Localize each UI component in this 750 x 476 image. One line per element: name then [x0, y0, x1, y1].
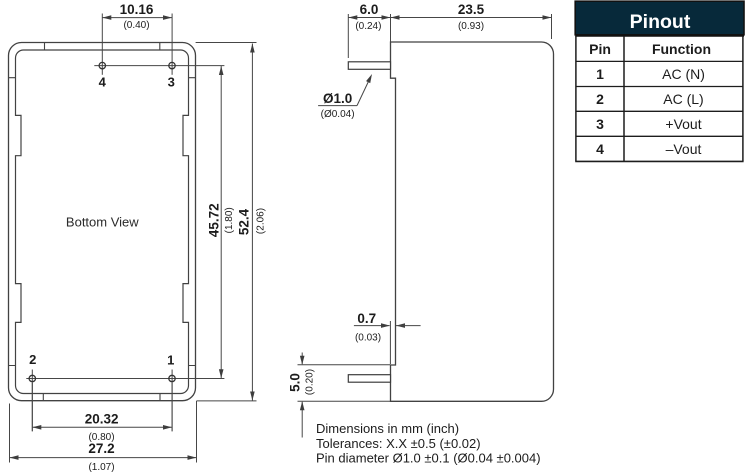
pin centerline (top pins row) — [94, 65, 224, 67]
svg-text:1: 1 — [596, 66, 604, 82]
svg-text:23.5: 23.5 — [458, 2, 485, 17]
svg-text:6.0: 6.0 — [360, 2, 379, 17]
dimension 23.5 (0.93) — [391, 2, 552, 39]
dimension 5.0 (0.20) — [287, 353, 390, 438]
svg-text:Function: Function — [652, 41, 711, 57]
svg-text:52.4: 52.4 — [237, 208, 252, 235]
svg-text:(0.20): (0.20) — [305, 369, 316, 395]
svg-text:(Ø0.04): (Ø0.04) — [321, 109, 355, 120]
svg-text:(0.03): (0.03) — [355, 333, 381, 344]
top pin (side view) — [348, 62, 390, 70]
pin 4 — [99, 62, 105, 68]
svg-text:Pin diameter Ø1.0 ±0.1 (Ø0.04: Pin diameter Ø1.0 ±0.1 (Ø0.04 ±0.004) — [316, 451, 541, 466]
svg-text:Pinout: Pinout — [630, 11, 691, 33]
svg-text:(0.40): (0.40) — [123, 20, 149, 31]
svg-text:(0.93): (0.93) — [458, 21, 484, 32]
edge tick marks — [9, 43, 196, 401]
extension line bottom right of bottom view — [197, 400, 257, 402]
svg-text:4: 4 — [596, 141, 604, 157]
svg-text:5.0: 5.0 — [287, 373, 302, 392]
svg-text:Ø1.0: Ø1.0 — [323, 91, 352, 106]
pin 3 axis / extension line — [171, 14, 173, 75]
bottom pin (side view) — [348, 375, 390, 383]
notes text block — [316, 421, 541, 466]
table outer background — [576, 2, 743, 162]
table grid — [576, 61, 743, 136]
pin centerline (bottom pins row) — [26, 378, 224, 380]
extension line top right of bottom view — [196, 42, 257, 44]
pin 1 — [169, 375, 175, 381]
pin 1 axis / extension line — [171, 370, 173, 432]
svg-text:Bottom View: Bottom View — [66, 215, 139, 230]
svg-text:Tolerances: X.X ±0.5 (±0.02): Tolerances: X.X ±0.5 (±0.02) — [316, 436, 481, 451]
svg-text:(1.07): (1.07) — [88, 462, 114, 473]
dimension 10.16 (0.40) — [102, 2, 172, 31]
pin 2 — [29, 375, 35, 381]
case side outline — [391, 42, 554, 401]
svg-text:3: 3 — [168, 75, 175, 90]
svg-text:(1.80): (1.80) — [224, 207, 235, 233]
svg-text:45.72: 45.72 — [207, 203, 222, 237]
table header band — [575, 1, 744, 35]
svg-text:2: 2 — [596, 91, 604, 107]
dimension 45.72 (1.80) — [207, 66, 235, 378]
svg-text:4: 4 — [99, 75, 107, 90]
svg-text:Pin: Pin — [589, 41, 611, 57]
svg-text:AC (L): AC (L) — [663, 91, 703, 107]
svg-text:–Vout: –Vout — [666, 141, 702, 157]
dimension 0.7 (0.03) — [354, 311, 421, 364]
svg-text:10.16: 10.16 — [120, 2, 154, 17]
svg-text:27.2: 27.2 — [88, 441, 114, 456]
svg-text:3: 3 — [596, 116, 604, 132]
svg-text:0.7: 0.7 — [357, 311, 376, 326]
case inner outline with side notches — [16, 50, 189, 394]
svg-text:(2.06): (2.06) — [256, 208, 267, 234]
svg-text:1: 1 — [167, 353, 174, 368]
svg-text:AC (N): AC (N) — [662, 66, 705, 82]
dimension 20.32 (0.80) — [32, 383, 172, 443]
pin 3 — [169, 62, 175, 68]
pin diameter callout Ø1.0 (Ø0.04) — [318, 73, 374, 120]
svg-text:2: 2 — [29, 352, 36, 367]
pin 2 axis / extension line — [31, 370, 33, 432]
svg-text:+Vout: +Vout — [665, 116, 701, 132]
dimension 27.2 (1.07) — [10, 401, 197, 473]
dimension 52.4 (2.06) — [237, 44, 267, 401]
dimension 6.0 (0.24) — [348, 2, 390, 58]
svg-text:Dimensions in mm (inch): Dimensions in mm (inch) — [316, 421, 459, 436]
case outer outline — [9, 43, 196, 401]
svg-text:20.32: 20.32 — [85, 412, 119, 427]
pin 4 axis / extension line — [101, 14, 103, 75]
svg-text:(0.24): (0.24) — [355, 21, 381, 32]
